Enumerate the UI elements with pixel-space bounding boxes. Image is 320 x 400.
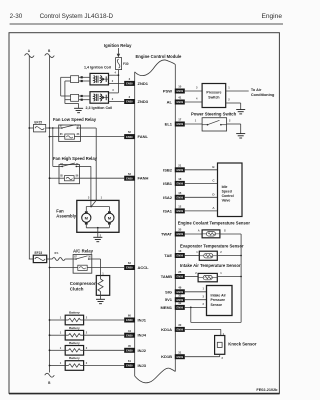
svg-text:41: 41 [178, 96, 182, 100]
svg-text:Control: Control [222, 194, 234, 198]
svg-text:EN09: EN09 [126, 364, 133, 368]
svg-text:G: G [224, 229, 226, 233]
svg-text:Power Steering Switch: Power Steering Switch [191, 111, 237, 116]
svg-text:EF25: EF25 [34, 120, 42, 124]
svg-text:13: 13 [178, 249, 182, 253]
svg-text:A: A [198, 229, 200, 233]
svg-text:TAE: TAE [164, 253, 172, 258]
svg-text:EN09: EN09 [177, 100, 184, 104]
svg-text:F30: F30 [123, 62, 129, 66]
svg-text:60: 60 [128, 314, 132, 318]
svg-text:30: 30 [178, 323, 182, 327]
svg-text:KD1A: KD1A [161, 327, 172, 332]
svg-text:EL1: EL1 [165, 122, 173, 127]
svg-text:Conditioning: Conditioning [251, 93, 275, 97]
svg-text:Battery: Battery [69, 326, 80, 330]
svg-text:EN09: EN09 [177, 196, 184, 200]
svg-text:Idle: Idle [222, 185, 228, 189]
svg-text:63: 63 [128, 261, 132, 265]
svg-text:To Air: To Air [251, 88, 262, 92]
svg-text:FE02-2102b: FE02-2102b [256, 388, 278, 392]
svg-text:ZND1: ZND1 [138, 81, 149, 86]
svg-text:Compressor: Compressor [70, 281, 96, 286]
svg-text:52: 52 [128, 130, 132, 134]
svg-text:61: 61 [128, 359, 132, 363]
svg-text:KD1B: KD1B [161, 354, 172, 359]
svg-text:1,4 Ignition Coil: 1,4 Ignition Coil [84, 65, 111, 69]
svg-text:EN09: EN09 [177, 209, 184, 213]
svg-text:EN09: EN09 [177, 306, 184, 310]
svg-text:5V1: 5V1 [165, 297, 173, 302]
svg-text:EN09: EN09 [177, 232, 184, 236]
svg-text:Fan Low Speed Relay: Fan Low Speed Relay [53, 117, 97, 122]
svg-text:INJ1: INJ1 [138, 318, 147, 323]
svg-text:45: 45 [128, 344, 132, 348]
svg-text:10: 10 [178, 85, 182, 89]
svg-text:TWAT: TWAT [161, 232, 173, 237]
svg-text:ISA1: ISA1 [163, 208, 173, 213]
svg-text:Intake Air: Intake Air [211, 293, 227, 297]
svg-text:FANH: FANH [138, 176, 149, 181]
svg-text:Knock Sensor: Knock Sensor [228, 342, 257, 347]
svg-text:TAMB: TAMB [161, 274, 172, 279]
svg-text:Control System JL4G18-D: Control System JL4G18-D [40, 13, 114, 20]
svg-text:Evaporator Temperature Sensor: Evaporator Temperature Sensor [180, 243, 244, 248]
svg-text:SIG: SIG [165, 289, 172, 294]
svg-text:15: 15 [178, 191, 182, 195]
svg-text:Valve: Valve [222, 198, 231, 202]
svg-text:EN09: EN09 [126, 100, 133, 104]
svg-text:44: 44 [128, 329, 132, 333]
svg-text:ZND3: ZND3 [138, 99, 149, 104]
svg-text:49: 49 [178, 285, 182, 289]
svg-text:Engine: Engine [261, 13, 282, 20]
svg-text:MEM1: MEM1 [160, 305, 172, 310]
svg-text:Engine Coolant Temperature Sen: Engine Coolant Temperature Sensor [178, 220, 251, 225]
svg-text:31: 31 [178, 350, 182, 354]
svg-text:Battery: Battery [69, 341, 80, 345]
svg-text:EN09: EN09 [126, 135, 133, 139]
svg-text:AL: AL [167, 100, 173, 105]
svg-text:12: 12 [178, 205, 182, 209]
svg-text:Speed: Speed [222, 190, 232, 194]
svg-text:EN09: EN09 [177, 122, 184, 126]
svg-text:25: 25 [178, 270, 182, 274]
svg-text:18: 18 [178, 177, 182, 181]
svg-text:EN09: EN09 [177, 89, 184, 93]
svg-text:Fan High Speed Relay: Fan High Speed Relay [53, 156, 98, 161]
svg-text:EN09: EN09 [126, 176, 133, 180]
svg-text:33: 33 [178, 293, 182, 297]
svg-text:EN09: EN09 [126, 333, 133, 337]
svg-text:INJ4: INJ4 [138, 333, 147, 338]
svg-text:35: 35 [178, 228, 182, 232]
svg-text:PSW: PSW [163, 89, 172, 94]
svg-text:ISB1: ISB1 [163, 181, 173, 186]
svg-text:EN09: EN09 [177, 168, 184, 172]
svg-text:EN09: EN09 [177, 275, 184, 279]
svg-text:EF23: EF23 [35, 251, 43, 255]
svg-text:ISA2: ISA2 [163, 195, 173, 200]
svg-text:Intake Air Temperature Sensor: Intake Air Temperature Sensor [180, 263, 241, 268]
svg-text:2-30: 2-30 [10, 13, 23, 20]
svg-text:Sensor: Sensor [211, 303, 223, 307]
svg-text:EN09: EN09 [126, 266, 133, 270]
svg-text:EN09: EN09 [126, 318, 133, 322]
svg-text:EN09: EN09 [177, 182, 184, 186]
svg-text:INJ2: INJ2 [138, 348, 147, 353]
svg-text:EN09: EN09 [126, 349, 133, 353]
svg-text:2,3 Ignition Coil: 2,3 Ignition Coil [86, 106, 113, 110]
svg-text:ISB2: ISB2 [163, 167, 173, 172]
svg-text:Ignition Relay: Ignition Relay [104, 43, 132, 48]
svg-text:EN09: EN09 [177, 328, 184, 332]
svg-text:Pressure: Pressure [211, 298, 226, 302]
svg-text:Engine Control Module: Engine Control Module [136, 54, 182, 59]
svg-text:INJ3: INJ3 [138, 363, 147, 368]
svg-text:Clutch: Clutch [70, 286, 84, 291]
svg-text:FANL: FANL [138, 134, 149, 139]
svg-text:IF1: IF1 [55, 251, 59, 255]
svg-text:Pressure: Pressure [206, 90, 221, 94]
svg-text:Assembly: Assembly [56, 213, 76, 218]
svg-text:EN09: EN09 [126, 82, 133, 86]
svg-text:EN09: EN09 [177, 355, 184, 359]
svg-text:Battery: Battery [69, 356, 80, 360]
svg-text:53: 53 [128, 172, 132, 176]
svg-text:21: 21 [178, 163, 182, 167]
svg-text:ACCL: ACCL [138, 265, 150, 270]
svg-text:A/C Relay: A/C Relay [73, 248, 94, 253]
svg-text:Switch: Switch [208, 95, 219, 99]
svg-text:32: 32 [178, 301, 182, 305]
svg-text:Battery: Battery [69, 311, 80, 315]
svg-text:EN09: EN09 [177, 254, 184, 258]
svg-text:17: 17 [178, 118, 182, 122]
